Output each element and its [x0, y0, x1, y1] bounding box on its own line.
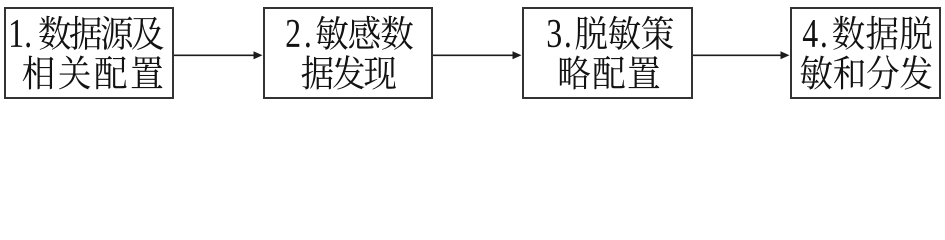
arrow 1	[174, 54, 256, 56]
box2 line1 CJK	[316, 16, 347, 50]
box1 line2	[23, 56, 54, 90]
box 1	[5, 8, 173, 98]
box1 line1 CJK	[39, 16, 70, 50]
box3 line2	[560, 56, 590, 90]
label 4.	[803, 20, 818, 47]
label 1.	[11, 20, 22, 47]
box 3	[523, 8, 692, 98]
box4 line1 CJK	[833, 16, 864, 50]
arrow 3	[693, 54, 783, 56]
label 2.	[287, 20, 300, 47]
arrow 2	[433, 54, 515, 56]
box2 line2	[302, 56, 333, 90]
box 4	[791, 8, 940, 98]
label 3.	[548, 20, 561, 48]
box4 line2	[801, 56, 832, 90]
box 2	[264, 8, 432, 98]
box3 line1 CJK	[576, 16, 607, 50]
